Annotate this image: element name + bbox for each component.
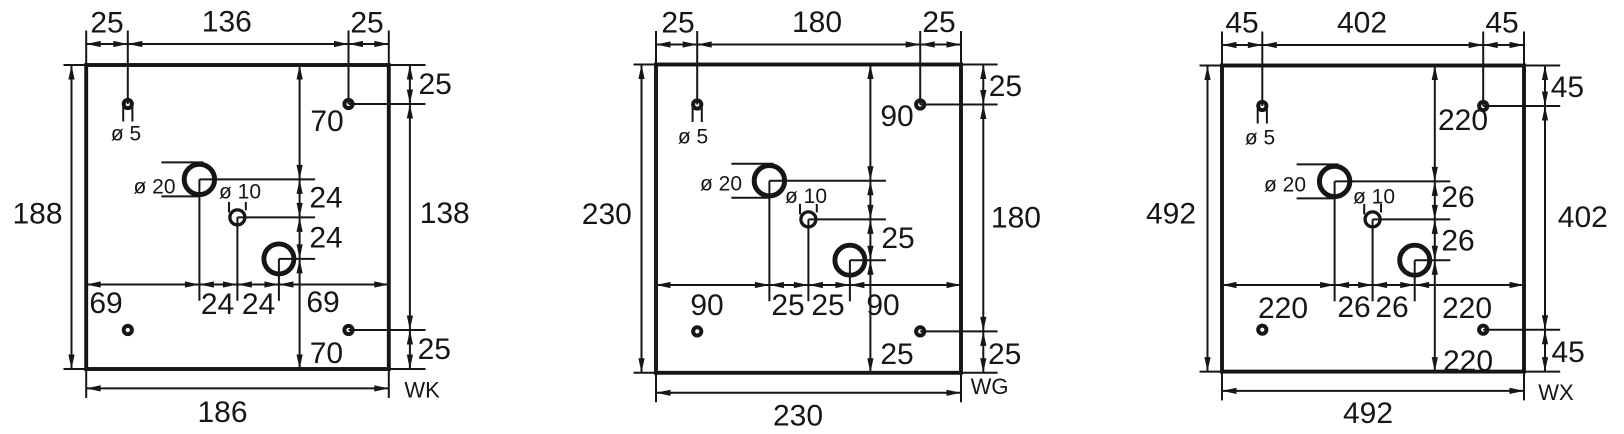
WG top extension line left edge <box>655 31 657 65</box>
svg-text:25: 25 <box>989 70 1022 103</box>
WK bottom extension line right <box>388 369 390 398</box>
WG ø10 centre leader down <box>807 219 809 301</box>
WX top dimension line <box>1222 44 1524 46</box>
WX top extension line left edge <box>1221 32 1223 66</box>
svg-text:26: 26 <box>1337 291 1370 324</box>
svg-text:ø 20: ø 20 <box>133 176 175 199</box>
WG right dimension line <box>982 65 984 373</box>
WG inner horizontal dimension line <box>656 284 961 286</box>
WK right leader line hole top-right <box>349 103 426 105</box>
svg-text:45: 45 <box>1552 336 1585 369</box>
WG top dimension line <box>656 44 961 46</box>
WX hole top-right <box>1479 102 1487 110</box>
svg-text:26: 26 <box>1441 224 1474 257</box>
svg-text:25: 25 <box>419 68 452 101</box>
WG right leader line hole bottom-right <box>920 330 997 332</box>
WX top extension/centre line hole top-right <box>1482 32 1484 107</box>
svg-text:ø 10: ø 10 <box>219 180 261 203</box>
WK top extension/centre line hole top-right <box>348 31 350 105</box>
svg-text:69: 69 <box>306 286 339 319</box>
WK top extension/centre line hole top-left <box>127 31 129 105</box>
WG left extension line top <box>634 64 657 66</box>
svg-text:90: 90 <box>880 100 913 133</box>
WK left extension line top <box>64 64 87 66</box>
WK top extension line left edge <box>85 31 87 66</box>
WK inner horizontal dimension line <box>86 284 389 286</box>
svg-text:ø 5: ø 5 <box>111 123 141 146</box>
svg-text:220: 220 <box>1258 292 1308 325</box>
WG bottom extension line left <box>655 373 657 403</box>
WX right extension line top edge <box>1524 65 1560 67</box>
svg-text:230: 230 <box>582 198 632 231</box>
WX right dimension line <box>1544 66 1546 372</box>
WG hole bottom-left <box>693 327 701 335</box>
WG top extension/centre line hole top-right <box>919 31 921 105</box>
WX hole bottom-left <box>1258 326 1266 334</box>
WK ø10 diameter extension ticks <box>228 202 230 213</box>
svg-text:186: 186 <box>197 396 247 429</box>
svg-text:ø 20: ø 20 <box>700 173 742 196</box>
WK ø20 diameter extension lines <box>161 161 203 163</box>
WX bottom extension line right <box>1523 372 1525 401</box>
WK hole top-right <box>344 100 352 108</box>
WX left extension line bottom <box>1200 371 1223 373</box>
WX right leader line hole bottom-right <box>1483 329 1560 331</box>
WX ø20 centre leader right <box>1335 180 1451 182</box>
WG ø20 centre leader down <box>768 181 770 302</box>
WX left dimension line <box>1207 66 1209 372</box>
svg-text:136: 136 <box>202 5 252 38</box>
WX left extension line top <box>1200 65 1223 67</box>
WK ø5 diameter extension ticks <box>122 107 124 122</box>
svg-text:25: 25 <box>880 338 913 371</box>
WG ø20 centre leader right <box>769 180 886 182</box>
svg-text:25: 25 <box>771 289 804 322</box>
svg-text:45: 45 <box>1485 6 1518 39</box>
WK bottom circle centre leader right <box>279 258 315 260</box>
WX ø5 diameter extension ticks <box>1257 109 1259 124</box>
WG vertical chain dimension line <box>869 65 871 373</box>
svg-text:70: 70 <box>310 337 343 370</box>
svg-text:220: 220 <box>1442 292 1492 325</box>
WG hole ø5 top-left <box>693 100 701 108</box>
WX hole bottom-right <box>1479 326 1487 334</box>
WK bottom circle centre leader down <box>278 259 280 301</box>
svg-text:ø 20: ø 20 <box>1264 174 1306 197</box>
WG ø5 diameter extension ticks <box>692 108 694 123</box>
WX bottom circle centre leader right <box>1415 259 1451 261</box>
svg-text:25: 25 <box>811 289 844 322</box>
svg-text:180: 180 <box>792 6 842 39</box>
WK bottom dimension line <box>86 387 389 389</box>
WX vertical chain dimension line <box>1434 66 1436 372</box>
WG bottom extension line right <box>960 373 962 403</box>
WG bottom dimension line <box>656 392 961 394</box>
WG ø10 diameter extension ticks <box>799 204 801 215</box>
svg-text:26: 26 <box>1441 181 1474 214</box>
WG ø10 centre leader right <box>808 218 886 220</box>
svg-text:WX: WX <box>1538 380 1574 405</box>
svg-text:138: 138 <box>420 197 470 230</box>
svg-text:24: 24 <box>242 288 275 321</box>
svg-text:492: 492 <box>1146 198 1196 231</box>
WK ø10 centre leader right <box>237 216 315 218</box>
svg-text:25: 25 <box>922 6 955 39</box>
WX ø20 diameter extension lines <box>1297 163 1339 165</box>
svg-text:45: 45 <box>1225 6 1258 39</box>
WK right extension line top edge <box>389 64 426 66</box>
WG plate outline <box>656 65 961 373</box>
WX ø10 diameter extension ticks <box>1363 204 1365 215</box>
svg-text:25: 25 <box>988 338 1021 371</box>
WX circle bottom (ø20) <box>1400 245 1430 275</box>
WG bottom circle centre leader down <box>849 260 851 301</box>
WX hole ø5 top-left <box>1258 102 1266 110</box>
WG hole bottom-right <box>916 327 924 335</box>
WK plate outline <box>86 65 389 369</box>
WK right dimension line <box>409 65 411 369</box>
svg-text:ø 5: ø 5 <box>678 126 708 149</box>
WK bottom extension line left <box>85 369 87 398</box>
WK circle bottom (ø20) <box>264 244 294 274</box>
svg-text:90: 90 <box>866 289 899 322</box>
WK ø20 centre leader right <box>199 178 315 180</box>
svg-text:25: 25 <box>881 222 914 255</box>
svg-text:WG: WG <box>971 374 1009 399</box>
WK left extension line bottom <box>64 368 87 370</box>
svg-text:25: 25 <box>661 6 694 39</box>
WG ø20 diameter extension lines <box>731 163 773 165</box>
svg-text:230: 230 <box>773 399 823 432</box>
svg-text:ø 5: ø 5 <box>1245 126 1275 149</box>
WG bottom circle centre leader right <box>850 259 886 261</box>
svg-text:180: 180 <box>991 202 1041 235</box>
WX circle ø10 <box>1365 212 1380 227</box>
WX ø20 centre leader down <box>1334 181 1336 301</box>
WK ø20 centre leader down <box>198 179 200 300</box>
WX bottom circle centre leader down <box>1414 260 1416 301</box>
WG right extension line top edge <box>961 64 998 66</box>
svg-text:25: 25 <box>418 333 451 366</box>
WK top dimension line <box>86 43 389 45</box>
WG circle ø10 <box>801 212 816 227</box>
WX ø10 centre leader right <box>1373 218 1451 220</box>
WX top extension/centre line hole top-left <box>1261 32 1263 107</box>
svg-text:WK: WK <box>404 378 440 403</box>
WK right leader line hole bottom-right <box>349 329 426 331</box>
WG right extension line bottom edge <box>961 372 998 374</box>
svg-text:25: 25 <box>350 6 383 39</box>
WX bottom extension line left <box>1221 372 1223 401</box>
svg-text:402: 402 <box>1337 6 1387 39</box>
WK top extension line right edge <box>388 31 390 66</box>
svg-text:220: 220 <box>1443 345 1493 378</box>
svg-text:402: 402 <box>1558 201 1608 234</box>
WX plate outline <box>1222 66 1524 372</box>
svg-text:492: 492 <box>1343 397 1393 430</box>
WG top extension line right edge <box>960 31 962 65</box>
svg-text:24: 24 <box>309 181 342 214</box>
WG circle bottom (ø20) <box>835 245 865 275</box>
svg-text:220: 220 <box>1438 104 1488 137</box>
WX right leader line hole top-right <box>1483 105 1560 107</box>
WG top extension/centre line hole top-left <box>696 31 698 105</box>
svg-text:ø 10: ø 10 <box>785 185 827 208</box>
svg-text:ø 10: ø 10 <box>1353 186 1395 209</box>
svg-text:24: 24 <box>201 288 234 321</box>
WX right extension line bottom edge <box>1524 371 1560 373</box>
WG right leader line hole top-right <box>920 104 997 106</box>
WX ø10 centre leader down <box>1372 219 1374 301</box>
WK hole ø5 top-left <box>124 100 132 108</box>
WX bottom dimension line <box>1222 390 1524 392</box>
svg-text:24: 24 <box>309 221 342 254</box>
WX top extension line right edge <box>1523 32 1525 66</box>
WK hole bottom-right <box>344 326 352 334</box>
WG left dimension line <box>641 65 643 373</box>
svg-text:69: 69 <box>89 287 122 320</box>
WK circle ø10 <box>230 210 245 225</box>
svg-text:45: 45 <box>1551 71 1584 104</box>
WK ø10 centre leader down <box>236 217 238 300</box>
svg-text:70: 70 <box>310 105 343 138</box>
svg-text:188: 188 <box>12 198 62 231</box>
WG left extension line bottom <box>634 372 657 374</box>
svg-text:90: 90 <box>690 289 723 322</box>
WK vertical chain dimension line <box>299 65 301 369</box>
WK left dimension line <box>71 65 73 369</box>
svg-text:26: 26 <box>1375 291 1408 324</box>
WK circle ø20 <box>184 164 214 194</box>
WG circle ø20 <box>754 166 784 196</box>
WX inner horizontal dimension line <box>1222 284 1524 286</box>
WK right extension line bottom edge <box>389 368 426 370</box>
WK hole bottom-left <box>124 326 132 334</box>
svg-text:25: 25 <box>90 6 123 39</box>
WX circle ø20 <box>1319 166 1349 196</box>
WG hole top-right <box>916 100 924 108</box>
